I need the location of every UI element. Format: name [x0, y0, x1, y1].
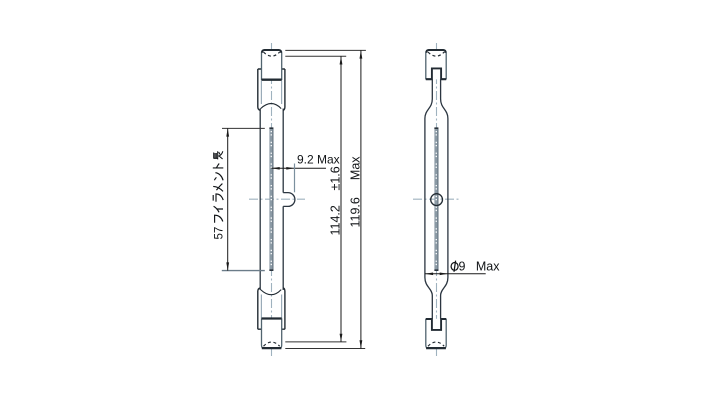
dimension phi9: dimension line: [425, 273, 486, 275]
side view bottom cap contact dome arc (dashed): [428, 342, 444, 346]
dimension 119.6: arrow up: [360, 50, 363, 58]
dimension 57 text: 57: [213, 151, 226, 239]
dimension phi9 text: [451, 263, 458, 271]
svg-text:114.2: 114.2: [328, 205, 342, 235]
dimension 57: arrow up: [226, 128, 229, 136]
side view bottom cap top edge (thick): [426, 318, 446, 320]
svg-text:9: 9: [459, 259, 466, 273]
side view bottom cap bottom edge (thick): [426, 347, 446, 349]
svg-text:9.2 Max: 9.2 Max: [297, 152, 340, 166]
svg-text:±1.6: ±1.6: [328, 166, 342, 190]
side view bottom cap: [426, 319, 446, 349]
bottom sleeve top rim arc: [261, 290, 282, 295]
hidden cap lines inside bottom sleeve: [261, 295, 281, 319]
bottom cap top edge (thick): [262, 317, 282, 319]
quartz tube (front view) left wall: [259, 109, 261, 291]
side view top cap: [426, 50, 446, 80]
side view top cap bottom edge (thick): [426, 78, 446, 80]
front view horizontal centerline: [249, 198, 305, 200]
dimension 114.2: vertical dimension line: [340, 56, 342, 342]
bottom ceramic sleeve: [258, 288, 285, 329]
side view tube body right wall with shoulders: [441, 69, 448, 330]
side view vertical centerline: [436, 43, 438, 357]
dimension 57: extension line bottom: [222, 270, 265, 272]
dimension 114.2: extension line bottom: [285, 341, 346, 343]
side view top cap contact recess arc (dashed): [428, 52, 444, 56]
hidden cap lines inside top sleeve: [261, 81, 281, 105]
side view tube body left wall with shoulders: [425, 69, 432, 330]
dimension 119.6: arrow down: [360, 340, 363, 348]
dimension 114.2: arrow down: [340, 334, 343, 342]
svg-text:119.6: 119.6: [349, 197, 363, 227]
svg-text:57: 57: [214, 227, 226, 240]
bottom cap: [262, 318, 282, 348]
side view horizontal centerline: [413, 198, 459, 200]
top sleeve bottom rim arc: [261, 104, 282, 109]
katakana to: [213, 164, 224, 168]
svg-text:Max: Max: [349, 156, 363, 180]
filament (front view): [269, 128, 273, 271]
svg-text:Max: Max: [476, 259, 500, 273]
dimension 57: vertical dimension line: [227, 128, 229, 270]
dimension 9.2: arrow left at centerline: [272, 167, 280, 170]
dimension 119.6: extension line top: [285, 49, 366, 51]
top ceramic sleeve: [258, 69, 285, 110]
katakana me: [213, 184, 223, 192]
front view vertical centerline: [271, 43, 273, 357]
dimension 9.2 Max: dimension line: [272, 167, 327, 169]
dimension 119.6: vertical dimension line: [360, 50, 362, 348]
top cap: [262, 50, 282, 80]
bottom cap bottom edge (thick): [262, 347, 282, 349]
side view bottom cap pinch notch (thick): [432, 318, 441, 330]
katakana ra: [213, 194, 223, 202]
exhaust tip circle (side view): [431, 194, 443, 206]
katakana fu: [215, 215, 223, 223]
filament (side view): [434, 128, 438, 271]
top cap contact recess arc (dashed): [264, 52, 280, 56]
katakana small i: [214, 206, 223, 212]
dimension 57 filament length: extension line top: [222, 127, 265, 129]
dimension phi9: arrow left: [425, 273, 433, 276]
side view top cap pinch notch (thick): [432, 68, 441, 79]
dimension 114.2: arrow up: [340, 56, 343, 64]
dimension 9.2: arrow right at tip extension: [286, 167, 294, 170]
dimension phi9: arrow right: [440, 273, 448, 276]
quartz tube (front view) right wall with exhaust tip bump: [282, 109, 284, 291]
top cap bottom edge (thick): [262, 79, 282, 81]
dimension 114.2: extension line top: [285, 55, 346, 57]
kanji naga (length): [213, 151, 222, 159]
exhaust tip bump: [283, 193, 295, 207]
dimension 57: arrow down: [226, 262, 229, 270]
dimension 9.2: extension line at exhaust tip: [294, 164, 296, 193]
bottom cap contact dome arc (dashed): [264, 342, 280, 346]
dimension 119.6: extension line bottom: [285, 348, 365, 350]
katakana n: [214, 173, 223, 181]
